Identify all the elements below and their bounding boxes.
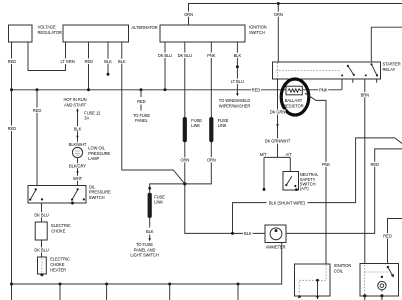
junction dot bottom bus 3 [105,283,108,286]
svg-text:PRESSURE: PRESSURE [88,151,110,156]
wire RED alternator pin 2 to bus [88,42,90,90]
neutral safety switch label [300,172,319,191]
svg-text:LAMP: LAMP [88,156,99,161]
label M/T [260,152,267,157]
junction dot LT BLU [236,65,239,68]
wire ammeter right to RED riser [286,149,402,234]
ignition coil output wire [317,280,319,297]
wire RED from right edge to distributor [388,219,402,264]
wire BLK lamp chain upper [77,111,79,148]
svg-text:ALTERNATOR: ALTERNATOR [132,25,158,30]
wire drop below bus 2 [59,284,61,300]
svg-text:RESISTOR: RESISTOR [283,103,303,108]
wire RED from voltage regulator left pin down left side [11,42,13,300]
label BLK/WHT [69,142,87,147]
label PNK vertical run [321,162,331,167]
label RED on alternator pin 2 [84,59,94,65]
fuse link 3 label [154,194,165,204]
label LT BLU [230,79,245,84]
svg-text:PANEL AND: PANEL AND [134,247,156,252]
label BLK below fuse link 3 [146,229,154,234]
annotation TO FUSE PANEL [133,113,150,123]
low oil pressure lamp label [88,146,110,162]
svg-text:BLK: BLK [234,53,242,58]
svg-text:LINK: LINK [191,123,200,128]
wire BLK alternator pin 3 stub [107,42,109,74]
junction dot bus at left RED wire [10,88,13,91]
svg-text:LT GRN: LT GRN [61,59,75,64]
fuse link 1 body [183,117,187,142]
svg-text:(A/T): (A/T) [300,186,309,191]
label RED on oil pressure feed [32,108,42,113]
annotation TO WINDSHIELD WIPER/WASHER [219,98,251,108]
tap RED to fuse panel [140,90,142,97]
junction dot bus at alternator RED [87,88,90,91]
distributor bottom terminal 1 [363,294,366,300]
wire RED bus to oil pressure switch [36,90,38,186]
terminator dot choke heater [40,273,43,276]
label A/T [286,152,293,157]
junction dot neutral safety switch bottom [295,188,298,191]
junction dot ORN merge [183,182,186,185]
oil pressure switch box [28,186,86,204]
starter relay contact 1 [341,65,355,77]
low oil pressure lamp circle [72,147,82,157]
svg-text:DK GRN: DK GRN [270,110,286,115]
svg-text:M/T: M/T [260,152,267,157]
junction dot bus at oil pressure feed [36,88,39,91]
neutral safety switch box [283,172,299,191]
svg-text:RED: RED [383,234,392,239]
svg-text:REGULATOR: REGULATOR [38,30,63,35]
svg-text:BLK/GRY: BLK/GRY [69,163,86,168]
label RED fuse panel tap [137,99,146,104]
svg-text:BLK: BLK [118,59,126,64]
junction dot bottom bus 2 [59,283,62,286]
starter relay box [273,62,381,79]
label BLK before ammeter [243,231,253,236]
label PNK on ballast line [318,87,328,92]
starter relay top feed wire [371,27,402,62]
svg-text:BALLAST: BALLAST [285,98,303,103]
ballast resistor label [283,98,303,108]
svg-text:COIL: COIL [334,269,344,274]
svg-text:SWITCH: SWITCH [249,30,265,35]
svg-text:LOW OIL: LOW OIL [88,146,105,151]
svg-text:TO FUSE: TO FUSE [136,242,153,247]
ignition switch label [249,25,267,35]
label RED on riser [370,162,380,167]
svg-text:PNK: PNK [319,88,328,93]
terminator dot alternator pin 3 [107,73,110,76]
ignition coil internal dashed path [299,265,326,294]
label DK BLU choke lower [34,247,49,252]
distributor internal dashed path [365,265,390,295]
svg-text:RED: RED [137,99,146,104]
junction dot ignition coil [316,279,319,282]
label ORN right [273,12,283,17]
svg-text:ORN: ORN [184,12,193,17]
label ORN left [184,12,194,17]
svg-text:ORN: ORN [180,158,189,163]
ignition coil label [334,263,352,273]
fuse link 2 body [209,117,213,142]
wire PNK ignition pin 3 drop [185,42,212,184]
label RED distributor feed [383,233,393,238]
svg-text:ELECTRIC: ELECTRIC [50,257,70,262]
svg-text:RED: RED [8,59,17,64]
svg-text:AND START: AND START [64,103,87,108]
fuse link 2 label [218,118,229,128]
ballast resistor highlight ellipse [281,79,309,115]
junction dot oil pressure switch bottom [71,202,74,205]
wire ORN through relay dotted [277,63,279,79]
alternator label [132,25,158,30]
distributor contact [381,266,394,278]
label BLK (SHUNT WIRE) [267,200,308,205]
svg-text:DK BLU: DK BLU [158,53,172,58]
fuse link 3 body [148,193,152,218]
bottom bus wire [12,243,282,285]
junction dot ORN corner [277,2,280,5]
label LT GRN [61,59,76,65]
svg-text:LINK: LINK [154,200,163,205]
svg-text:RED: RED [85,59,94,64]
svg-text:LIGHT SWITCH: LIGHT SWITCH [130,253,158,258]
ignition switch box [160,25,245,42]
label WHT [73,176,83,181]
junction dot bottom bus 5 [237,283,240,286]
label DK GRN/WHT [265,138,291,143]
arrowhead to switch down [76,171,78,174]
label BLK ignition pin 4 [233,53,242,58]
svg-text:BLK: BLK [104,59,112,64]
svg-text:DK BLU: DK BLU [34,213,48,218]
wire DK GRN below relay [277,79,279,157]
arrowhead DK GRN down [276,124,279,127]
svg-text:IGNITION: IGNITION [334,263,352,268]
svg-text:RED: RED [8,126,17,131]
electric choke box [35,222,47,240]
svg-text:RED: RED [370,162,379,167]
svg-text:PANEL: PANEL [135,118,149,123]
label BLK/GRY [69,163,86,168]
svg-text:FUSE: FUSE [218,118,229,123]
wire drop below bus 3 [106,284,108,300]
label RED on left wire mid [7,126,17,132]
wire DK BLU switch to electric choke [41,203,43,222]
wire drop below bus 5 [237,284,239,300]
voltage regulator label [38,25,63,35]
svg-text:BLK (SHUNT WIRE): BLK (SHUNT WIRE) [269,201,306,206]
neutral safety switch contact [285,176,296,187]
svg-text:FUSE 12: FUSE 12 [84,110,101,115]
svg-text:HOT IN RUN: HOT IN RUN [63,97,86,102]
label BLK on alternator pin 4 [118,59,127,64]
arrowhead to fuse panel and light switch [148,238,151,241]
svg-text:VOLTAGE: VOLTAGE [38,25,57,30]
svg-text:DK BLU: DK BLU [178,53,192,58]
label ORN below fuse link 1 [180,157,190,162]
oil pressure switch right contact [71,188,85,201]
svg-text:AMMETER: AMMETER [266,245,286,250]
starter relay pin stub 2 [352,79,354,83]
arrowhead hot feed up [76,108,78,111]
svg-text:ORN: ORN [207,158,216,163]
svg-text:WHT: WHT [73,176,83,181]
svg-text:RELAY: RELAY [383,67,396,72]
svg-text:STARTER: STARTER [383,62,401,67]
main bus wire RED y=90 [12,89,286,91]
wire to fuse link 3 [150,184,185,193]
svg-text:LT BLU: LT BLU [231,79,244,84]
arrowhead fuse panel tap [140,105,142,111]
distributor rotor circle [378,281,386,291]
svg-text:BLK: BLK [244,231,252,236]
label RED on left wire upper [7,59,17,65]
electric choke label [51,223,71,233]
svg-text:TO WINDSHIELD: TO WINDSHIELD [219,98,251,103]
arrowhead to windshield wiper [236,93,239,96]
wire drop below bus 4 [169,284,171,300]
svg-text:PNK: PNK [207,53,216,58]
electric choke heater box [38,257,47,274]
svg-text:LINK: LINK [218,123,227,128]
svg-text:FUSE: FUSE [191,118,202,123]
wire DK BLU choke to heater [41,240,43,257]
svg-text:ORN: ORN [274,12,283,17]
starter relay contact 2 [365,63,378,76]
ammeter label [266,245,286,250]
svg-text:BRN: BRN [361,92,370,97]
ignition coil box [295,264,331,296]
junction dot bus at ignition DK BLU pin 1 [164,88,167,91]
wire ORN ignition switch top feed over to right drop [189,4,402,63]
svg-text:BLK/WHT: BLK/WHT [69,142,87,147]
junction dot fuse link 3 top [148,187,151,190]
distributor box [360,264,399,297]
wire DK BLU ignition pin 2 long drop to BLK junction [185,42,265,233]
svg-text:BLK: BLK [74,126,82,131]
label RED on bus before ballast [251,87,261,92]
ballast resistor feed wire PNK segment [303,89,342,91]
label DK BLU ignition pin 2 [177,53,192,59]
svg-text:HEATER: HEATER [50,267,66,272]
wire DK BLU ignition pin 1 to bus [164,42,166,90]
svg-text:A/T: A/T [286,152,293,157]
annotation HOT IN RUN AND START [63,97,86,107]
svg-text:SWITCH: SWITCH [89,195,105,200]
oil pressure switch label [89,184,111,199]
starter relay pin stub 1 [341,79,343,90]
terminator dot M/T branch [263,188,266,191]
arrowhead lamp chain down [76,136,78,139]
svg-text:TO FUSE: TO FUSE [133,113,150,118]
fuse link 1 label [191,118,202,128]
wire BLK ignition pin 4 to wiper feed [236,42,238,94]
label ORN below fuse link 2 [206,157,216,162]
distributor bottom terminal 2 [380,294,383,300]
M/T A/T split wire [264,157,290,188]
junction dot bottom bus left [10,283,13,286]
svg-text:WIPER/WASHER: WIPER/WASHER [219,103,251,108]
svg-text:CHOKE: CHOKE [51,229,66,234]
svg-text:DK BLU: DK BLU [34,248,48,253]
svg-text:3A: 3A [84,116,89,121]
starter relay label [383,62,401,72]
junction dot bottom bus 4 [168,283,171,286]
label BLK on alternator pin 3 [104,59,113,64]
junction dot shunt branch [231,232,234,235]
label BRN [360,92,370,97]
svg-text:IGNITION: IGNITION [249,25,267,30]
svg-text:BLK: BLK [146,229,154,234]
annotation TO FUSE PANEL AND LIGHT SWITCH [130,242,158,258]
label BLK lamp chain [73,126,82,131]
label DK BLU choke upper [34,212,49,217]
arrowhead ignition coil bottom left [298,295,301,299]
starter relay coil dotted line [276,70,340,72]
ballast resistor element box [286,86,302,95]
arrowhead ignition coil output [316,296,319,300]
ammeter box [265,225,286,243]
starter relay pin stub 4 [376,79,378,83]
alternator box [63,25,129,42]
junction dot bus at fuse panel tap [140,88,143,91]
svg-text:RED: RED [33,108,42,113]
electric choke heater label [50,257,70,273]
fuse 12 label [84,110,101,120]
label DK GRN [270,109,286,114]
svg-text:FUSE: FUSE [154,194,165,199]
svg-text:CHOKE: CHOKE [50,262,65,267]
voltage regulator box [9,25,33,42]
wire PNK from ballast to ignition coil [305,93,326,264]
svg-text:DK GRN/WHT: DK GRN/WHT [265,139,291,144]
wire lamp to oil pressure switch [77,157,79,185]
ammeter meter symbol [270,228,282,240]
svg-text:PNK: PNK [322,162,331,167]
svg-text:RED: RED [252,88,261,93]
wire LT GRN voltage regulator right pin to alternator pin 1 [28,42,66,71]
wire BLK alternator pin 4 down to horizontal run [122,42,185,184]
label DK BLU ignition pin 1 [158,53,173,59]
oil pressure switch left contact [29,188,43,201]
wire BLK below fuse link 3 [149,218,151,239]
label PNK ignition pin 3 [206,53,216,59]
svg-text:ELECTRIC: ELECTRIC [51,223,71,228]
wire BRN starter relay to distributor [364,79,366,264]
shunt wire branch [233,138,402,234]
